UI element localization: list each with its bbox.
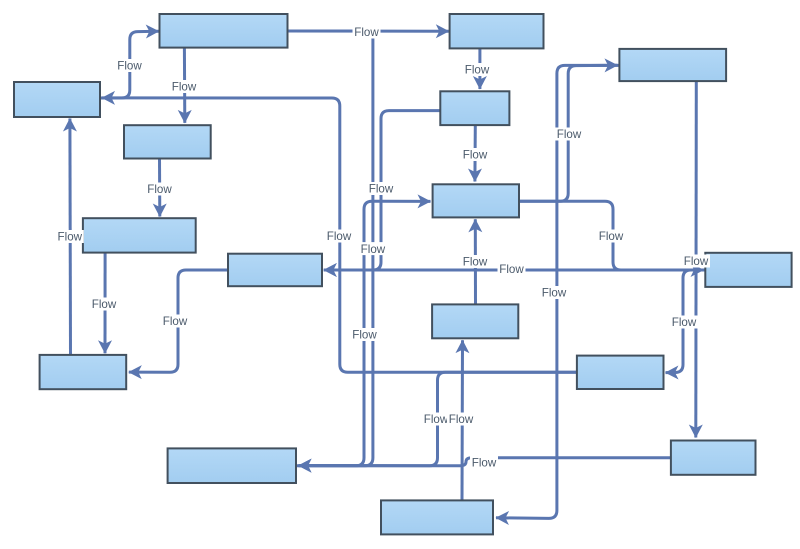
svg-text:Flow: Flow: [352, 329, 377, 342]
svg-text:Flow: Flow: [58, 231, 83, 244]
svg-text:Flow: Flow: [465, 64, 490, 77]
svg-text:Flow: Flow: [369, 183, 394, 196]
svg-text:Flow: Flow: [472, 457, 497, 470]
svg-text:Flow: Flow: [463, 256, 488, 269]
svg-text:Flow: Flow: [542, 287, 567, 300]
svg-text:Flow: Flow: [449, 413, 474, 426]
svg-text:Flow: Flow: [117, 60, 142, 73]
svg-text:Flow: Flow: [92, 298, 117, 311]
svg-text:Flow: Flow: [684, 255, 709, 268]
svg-text:Flow: Flow: [172, 81, 197, 94]
svg-text:Flow: Flow: [361, 243, 386, 256]
svg-text:Flow: Flow: [424, 413, 449, 426]
svg-text:Flow: Flow: [327, 230, 352, 243]
svg-text:Flow: Flow: [672, 316, 697, 329]
svg-text:Flow: Flow: [499, 263, 524, 276]
svg-text:Flow: Flow: [463, 149, 488, 162]
svg-text:Flow: Flow: [163, 315, 188, 328]
svg-text:Flow: Flow: [147, 183, 172, 196]
svg-text:Flow: Flow: [354, 26, 379, 39]
svg-text:Flow: Flow: [599, 230, 624, 243]
svg-text:Flow: Flow: [557, 128, 582, 141]
